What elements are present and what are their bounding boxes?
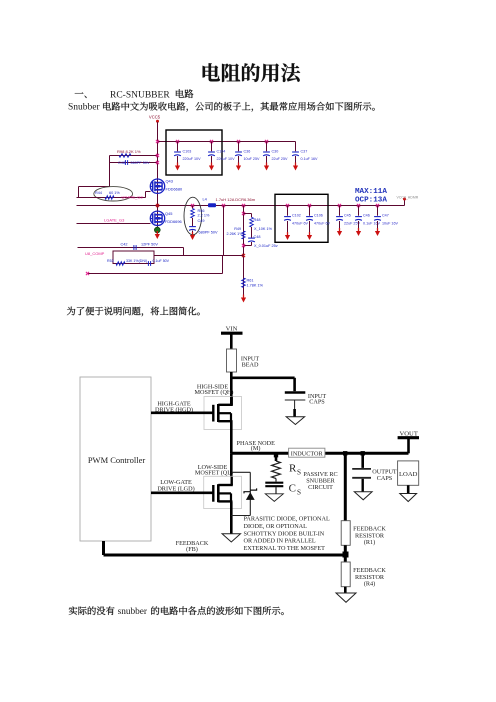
- svg-text:MOSFET (QL): MOSFET (QL): [195, 469, 233, 476]
- svg-text:C48: C48: [118, 161, 125, 165]
- svg-text:VCC3_HDMR: VCC3_HDMR: [397, 195, 419, 199]
- svg-text:BEAD: BEAD: [242, 362, 259, 369]
- svg-text:60 1%: 60 1%: [109, 191, 120, 195]
- svg-text:C104: C104: [217, 149, 226, 153]
- svg-text:1.7uH 12A DCR6.36m: 1.7uH 12A DCR6.36m: [216, 197, 256, 202]
- svg-text:PARASITIC DIODE, OPTIONAL: PARASITIC DIODE, OPTIONAL: [244, 516, 330, 523]
- svg-text:CIRCUIT: CIRCUIT: [308, 484, 333, 491]
- svg-text:2.2 1%: 2.2 1%: [198, 214, 210, 218]
- svg-text:33K 1%(DNI): 33K 1%(DNI): [126, 259, 147, 263]
- svg-text:12PF 50V: 12PF 50V: [141, 243, 158, 247]
- svg-text:C: C: [289, 482, 296, 494]
- svg-text:OR ADDED IN PARALLEL: OR ADDED IN PARALLEL: [244, 538, 316, 545]
- svg-text:LOAD: LOAD: [399, 471, 418, 478]
- svg-text:S: S: [297, 489, 301, 497]
- svg-text:RC-SNUBBER: RC-SNUBBER: [110, 90, 170, 100]
- svg-text:Q45: Q45: [165, 211, 172, 216]
- svg-text:220uF 10V: 220uF 10V: [183, 157, 202, 161]
- svg-text:470uF 6V: 470uF 6V: [292, 222, 309, 226]
- svg-text:1.78K 1%: 1.78K 1%: [247, 283, 264, 287]
- svg-text:Snubber: Snubber: [68, 102, 101, 112]
- svg-text:OCP:13A: OCP:13A: [355, 196, 387, 204]
- svg-text:UGATE_G3: UGATE_G3: [122, 194, 144, 199]
- svg-text:0.1uF 50V: 0.1uF 50V: [153, 259, 170, 263]
- svg-text:R: R: [289, 463, 297, 475]
- svg-text:CAPS: CAPS: [377, 475, 393, 482]
- svg-text:C48: C48: [254, 235, 261, 239]
- svg-text:INDUCTOR: INDUCTOR: [291, 451, 324, 458]
- svg-text:C103: C103: [183, 149, 192, 153]
- svg-text:MAX:11A: MAX:11A: [355, 188, 387, 196]
- svg-text:R44: R44: [95, 191, 102, 195]
- svg-text:C102: C102: [292, 214, 301, 218]
- svg-text:C47: C47: [382, 214, 389, 218]
- svg-text:DIODE, OR OPTIONAL: DIODE, OR OPTIONAL: [244, 523, 308, 530]
- svg-text:X_0.01uF 25v: X_0.01uF 25v: [254, 244, 278, 248]
- svg-text:EXTERNAL TO THE MOSFET: EXTERNAL TO THE MOSFET: [244, 545, 326, 552]
- svg-text:680PF 50V: 680PF 50V: [199, 231, 218, 235]
- svg-text:(M): (M): [251, 445, 261, 452]
- svg-text:560PF 50V: 560PF 50V: [131, 161, 150, 165]
- svg-text:R48: R48: [254, 218, 261, 222]
- svg-text:22uF 25V: 22uF 25V: [272, 157, 289, 161]
- svg-text:(R4): (R4): [364, 581, 375, 588]
- svg-text:C46: C46: [363, 214, 370, 218]
- svg-text:CAPS: CAPS: [309, 398, 325, 405]
- svg-text:R98 8.2K 1%: R98 8.2K 1%: [117, 149, 141, 154]
- svg-text:(FB): (FB): [186, 546, 198, 553]
- svg-text:220uF 10V: 220uF 10V: [217, 157, 236, 161]
- svg-text:C42: C42: [121, 243, 128, 247]
- svg-text:470uF 6V: 470uF 6V: [314, 222, 331, 226]
- svg-text:FDD6696: FDD6696: [165, 219, 182, 224]
- svg-text:0.1uF 16V: 0.1uF 16V: [301, 157, 319, 161]
- svg-text:SCHOTTKY DIODE BUILT-IN: SCHOTTKY DIODE BUILT-IN: [244, 530, 325, 537]
- svg-text:10uF 25V: 10uF 25V: [244, 157, 261, 161]
- svg-text:C106: C106: [314, 214, 323, 218]
- svg-text:C30: C30: [272, 149, 279, 153]
- svg-text:U8_COMP: U8_COMP: [85, 251, 105, 256]
- svg-text:C37: C37: [301, 149, 308, 153]
- svg-text:2.26K 1%: 2.26K 1%: [227, 232, 244, 236]
- svg-text:snubber: snubber: [118, 607, 148, 617]
- svg-text:R46: R46: [198, 209, 205, 213]
- svg-text:C45: C45: [344, 214, 351, 218]
- svg-text:R61: R61: [247, 279, 254, 283]
- svg-text:C49: C49: [198, 219, 205, 223]
- svg-text:X_10K 1%: X_10K 1%: [254, 227, 273, 231]
- svg-text:R53: R53: [107, 259, 114, 263]
- svg-text:C36: C36: [244, 149, 251, 153]
- svg-text:PWM Controller: PWM Controller: [88, 455, 146, 465]
- svg-text:FDD6680: FDD6680: [166, 187, 183, 192]
- svg-text:DRIVE (LGD): DRIVE (LGD): [157, 485, 194, 492]
- svg-text:VIN: VIN: [226, 325, 238, 332]
- svg-text:LGATE_G3: LGATE_G3: [104, 217, 125, 222]
- svg-text:MOSFET (QH): MOSFET (QH): [195, 389, 234, 396]
- svg-text:S: S: [297, 469, 301, 477]
- svg-text:10uF 16V: 10uF 16V: [382, 222, 399, 226]
- svg-text:VCC5: VCC5: [149, 114, 161, 119]
- svg-text:(R1): (R1): [364, 539, 375, 546]
- svg-text:Q43: Q43: [166, 179, 173, 184]
- svg-text:R49: R49: [234, 227, 241, 231]
